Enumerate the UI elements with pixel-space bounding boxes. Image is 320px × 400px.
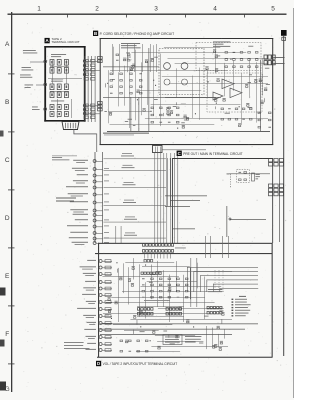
svg-text:F: F [5,331,9,338]
svg-text:P. CORD SELECTOR / PHONO EQ AM: P. CORD SELECTOR / PHONO EQ AMP CIRCUIT [100,32,175,36]
svg-text:2: 2 [95,6,99,13]
svg-text:C: C [5,157,10,164]
svg-text:A: A [5,41,10,48]
svg-text:TERMINAL CIRCUIT: TERMINAL CIRCUIT [52,40,80,44]
svg-text:B: B [5,99,9,106]
svg-text:B: B [94,31,97,36]
svg-text:D: D [5,215,10,222]
svg-text:1: 1 [37,6,41,13]
svg-text:5: 5 [271,6,275,13]
svg-text:3: 3 [154,6,158,13]
svg-text:4: 4 [213,6,217,13]
svg-text:PRE OUT / MAIN IN TERMINAL CIR: PRE OUT / MAIN IN TERMINAL CIRCUIT [183,152,242,156]
svg-text:D: D [97,361,100,366]
svg-text:VOL / TAPE 2 INPUT/OUTPUT TERM: VOL / TAPE 2 INPUT/OUTPUT TERMINAL CIRCU… [103,362,178,366]
svg-text:E: E [5,273,10,280]
